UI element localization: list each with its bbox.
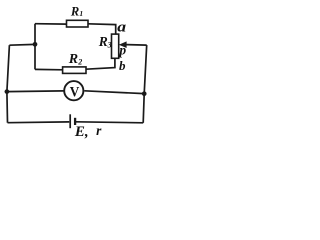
resistor R2 xyxy=(63,67,86,74)
wire right rail xyxy=(143,45,147,123)
wire R3 bottom to R2 xyxy=(86,58,115,69)
wire R1 right xyxy=(88,24,116,34)
svg-text:V: V xyxy=(70,84,80,101)
wire voltmeter left xyxy=(7,90,64,93)
battery E short plate xyxy=(74,118,76,125)
svg-text:R: R xyxy=(70,4,79,18)
wire bottom rail right xyxy=(76,122,143,123)
wire top left to junction xyxy=(9,43,35,46)
svg-text:3: 3 xyxy=(107,41,112,50)
svg-text:p: p xyxy=(118,42,126,57)
wire vertical connector R1/R2 split xyxy=(34,24,36,70)
wire left rail xyxy=(7,45,9,123)
wiper arrowhead xyxy=(119,41,127,48)
wire wiper to right rail xyxy=(126,44,147,47)
wire R1 left xyxy=(35,23,67,25)
wire voltmeter right xyxy=(84,91,144,94)
node voltmeter right xyxy=(142,91,147,96)
svg-text:b: b xyxy=(119,58,126,73)
svg-text:R: R xyxy=(98,34,108,49)
svg-text:R: R xyxy=(68,52,78,67)
battery E long plate xyxy=(69,114,71,128)
node voltmeter left xyxy=(5,89,10,94)
resistor R1 xyxy=(67,20,89,27)
svg-text:1: 1 xyxy=(79,9,83,18)
svg-text:2: 2 xyxy=(77,58,82,67)
wire bottom rail left xyxy=(8,121,70,124)
rheostat R3 xyxy=(112,34,119,58)
svg-text:E,: E, xyxy=(74,124,89,140)
svg-text:a: a xyxy=(117,18,126,35)
node junction left split xyxy=(33,42,38,47)
wire R2 left xyxy=(35,68,63,70)
svg-text:r: r xyxy=(96,123,102,138)
voltmeter V1 xyxy=(64,81,83,100)
